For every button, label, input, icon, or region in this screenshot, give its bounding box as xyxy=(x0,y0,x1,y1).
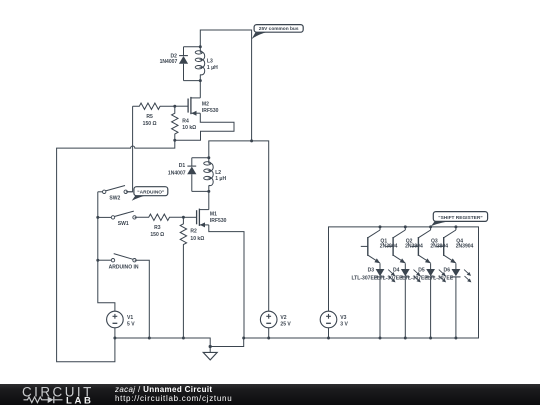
svg-text:D1: D1 xyxy=(179,163,186,169)
label D5 LTL-307EE xyxy=(402,268,428,282)
node V2 ground xyxy=(267,337,270,340)
ground xyxy=(203,345,217,360)
label R3 150 xyxy=(150,225,164,238)
label D3 LTL-307EE xyxy=(351,268,377,282)
transistor Q4 xyxy=(437,227,456,263)
svg-text:M2: M2 xyxy=(202,101,209,107)
svg-text:D4: D4 xyxy=(393,268,400,274)
node R5-R4 junction xyxy=(173,105,176,108)
wire R4 bottom to left rail with hop xyxy=(57,140,175,362)
svg-text:D6: D6 xyxy=(444,268,451,274)
node D4 ground xyxy=(404,337,407,340)
wire R5 to SW2 xyxy=(128,106,133,192)
resistor R3 xyxy=(136,214,183,220)
node R3-R2 junction xyxy=(182,216,185,219)
svg-text:R4: R4 xyxy=(182,119,189,125)
svg-text:3 V: 3 V xyxy=(340,321,348,327)
label Q4 2N3904 xyxy=(456,239,474,250)
callout 25V common bus xyxy=(252,25,304,40)
label SW1 xyxy=(118,221,129,227)
wire V2 minus xyxy=(268,328,270,338)
svg-text:1 μH: 1 μH xyxy=(207,65,218,71)
node D6 ground xyxy=(454,337,457,340)
node arduino-in ground xyxy=(148,337,151,340)
wire L2 top to V2 plus xyxy=(209,141,269,311)
svg-text:IRF530: IRF530 xyxy=(202,108,219,114)
label M1 IRF530 xyxy=(210,212,227,225)
svg-text:L3: L3 xyxy=(207,58,213,64)
diode D2 xyxy=(179,47,188,81)
label L2 1uH xyxy=(215,170,226,182)
label D1 1N4007 xyxy=(168,163,186,176)
label V1 5V xyxy=(127,315,135,327)
label M2 IRF530 xyxy=(202,101,219,114)
source V3 xyxy=(320,311,337,328)
node Q1 collector bus xyxy=(379,225,382,228)
svg-text:5 V: 5 V xyxy=(127,321,135,327)
svg-text:D5: D5 xyxy=(418,268,425,274)
wire L2 to M1 drain xyxy=(208,191,210,209)
wire top bus to 25V callout drop xyxy=(200,30,251,141)
svg-text:IRF530: IRF530 xyxy=(210,218,227,224)
label V3 3V xyxy=(340,315,348,327)
label D2 1N4007 xyxy=(160,53,178,65)
resistor R2 xyxy=(180,217,186,338)
svg-text:LTL-307EE: LTL-307EE xyxy=(351,275,377,281)
switch SW1 xyxy=(98,211,136,219)
wire D2-L3 top xyxy=(184,46,201,48)
node rail-arduino-in xyxy=(96,259,99,262)
svg-text:2N3904: 2N3904 xyxy=(456,244,474,250)
label R2 10k xyxy=(190,229,204,242)
label R4 10k xyxy=(182,119,196,132)
svg-text:1 μH: 1 μH xyxy=(215,176,226,182)
label ARDUINO IN xyxy=(109,264,139,270)
svg-text:SW1: SW1 xyxy=(118,221,129,227)
wire M2 gate xyxy=(175,105,188,107)
svg-text:10 kΩ: 10 kΩ xyxy=(182,125,196,131)
footer bar xyxy=(0,384,540,405)
svg-text:“ARDUINO”: “ARDUINO” xyxy=(137,189,165,195)
CircuitLab logo xyxy=(22,384,94,405)
LED D3 xyxy=(375,263,395,338)
node Q3 collector bus xyxy=(429,225,432,228)
callout SHIFT REGISTER xyxy=(431,212,488,227)
transistor Q3 xyxy=(411,227,430,263)
LED D4 xyxy=(401,263,421,338)
svg-text:LAB: LAB xyxy=(66,395,94,405)
label R5 150 xyxy=(143,114,157,127)
switch ARDUINO IN xyxy=(98,254,136,262)
wire D1-L2 top xyxy=(192,157,209,159)
label Q3 2N3904 xyxy=(430,239,448,250)
node L3 bottom xyxy=(199,79,202,82)
wire V1 minus xyxy=(114,328,116,338)
label Q1 2N3904 xyxy=(380,239,398,250)
wire V3 minus xyxy=(328,328,330,338)
svg-text:150 Ω: 150 Ω xyxy=(150,232,164,238)
switch SW2 xyxy=(98,186,133,194)
node D5 ground xyxy=(429,337,432,340)
switch rail xyxy=(98,192,115,311)
label V2 25V xyxy=(280,315,291,327)
LED D6 xyxy=(451,263,471,338)
node L3 top xyxy=(199,45,202,48)
wire D1-L2 bottom xyxy=(192,190,209,192)
node R4 bottom xyxy=(173,139,176,142)
svg-text:R3: R3 xyxy=(154,225,161,231)
node L2 bottom xyxy=(207,190,210,193)
node V1 ground xyxy=(113,337,116,340)
diode D1 xyxy=(187,158,196,192)
svg-text:10 kΩ: 10 kΩ xyxy=(190,236,204,242)
wire M1 gate xyxy=(183,216,196,218)
label D6 LTL-307EE xyxy=(427,268,453,282)
wire M1 source step xyxy=(209,225,244,338)
node R2 ground xyxy=(182,337,185,340)
svg-text:1N4007: 1N4007 xyxy=(168,170,186,176)
svg-text:V2: V2 xyxy=(280,315,286,321)
svg-text:25V common bus: 25V common bus xyxy=(259,26,299,32)
node Q2 collector bus xyxy=(404,225,407,228)
transistor M1 xyxy=(197,209,209,228)
svg-text:M1: M1 xyxy=(210,212,217,218)
node rail-SW1 xyxy=(96,216,99,219)
node D3 ground xyxy=(379,337,382,340)
inductor L2 xyxy=(204,158,214,192)
ground rail and collector bus xyxy=(115,227,479,347)
svg-text:“SHIFT REGISTER”: “SHIFT REGISTER” xyxy=(438,215,483,221)
callout ARDUINO xyxy=(132,187,168,201)
wire M2 source step xyxy=(175,113,234,140)
transistor Q1 xyxy=(361,227,380,263)
svg-text:http://circuitlab.com/cjztunu: http://circuitlab.com/cjztunu xyxy=(115,394,232,403)
svg-text:V3: V3 xyxy=(340,315,346,321)
footer title zacaj / Unnamed Circuit xyxy=(114,385,212,394)
svg-text:1N4007: 1N4007 xyxy=(160,59,178,65)
node 25V bus junction xyxy=(250,139,253,142)
wire L3 to M2 drain xyxy=(199,81,201,98)
svg-text:25 V: 25 V xyxy=(280,321,291,327)
svg-text:LTL-307EE: LTL-307EE xyxy=(377,275,403,281)
LED D5 xyxy=(426,263,446,338)
label Q2 2N3904 xyxy=(405,239,423,250)
transistor Q2 xyxy=(386,227,405,263)
footer url xyxy=(115,394,232,403)
svg-text:SW2: SW2 xyxy=(109,196,120,202)
svg-text:LTL-307EE: LTL-307EE xyxy=(402,275,428,281)
svg-text:R2: R2 xyxy=(190,229,197,235)
svg-text:V1: V1 xyxy=(127,315,133,321)
transistor M2 xyxy=(188,97,200,116)
resistor R4 xyxy=(172,106,178,140)
wire D2-L3 bottom xyxy=(184,80,201,82)
node M1-source ground xyxy=(242,337,245,340)
svg-text:LTL-307EE: LTL-307EE xyxy=(427,275,453,281)
node L2 top xyxy=(207,156,210,159)
source V1 xyxy=(107,311,124,328)
label D4 LTL-307EE xyxy=(377,268,403,282)
node V3 ground xyxy=(327,337,330,340)
resistor R5 xyxy=(133,103,175,109)
wire arduino-in to ground rail xyxy=(135,260,150,338)
node Q4 collector bus xyxy=(454,225,457,228)
svg-text:R5: R5 xyxy=(146,114,153,120)
label L3 1uH xyxy=(207,58,218,71)
label SW2 xyxy=(109,196,120,202)
inductor L3 xyxy=(195,47,205,81)
source V2 xyxy=(260,311,277,328)
svg-text:ARDUINO IN: ARDUINO IN xyxy=(109,264,139,270)
svg-text:D3: D3 xyxy=(368,268,375,274)
svg-text:150 Ω: 150 Ω xyxy=(143,121,157,127)
